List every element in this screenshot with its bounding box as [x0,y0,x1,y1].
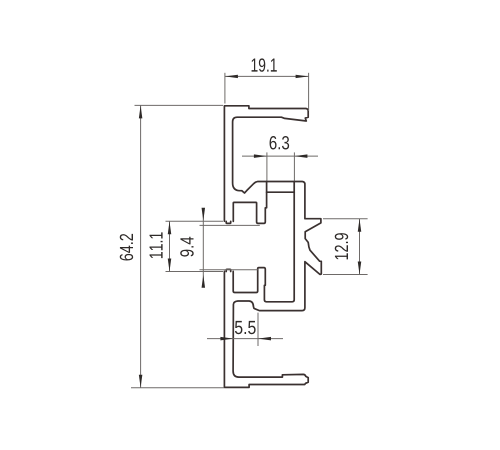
central hollow wall and lower channel [233,182,294,302]
upper inner channel (open-bottom slot) [233,182,266,224]
dimension 6.3 (slot width) [242,136,318,180]
spine end nub (top) [226,221,231,223]
screw-slot floor line [267,191,295,193]
spine end nub (bottom) [226,269,231,271]
dimension 12.9 (notch height) [323,219,368,275]
dimension 11.1 (outer gap height) [150,221,223,271]
dimension 64.2 (overall height) [120,105,224,387]
dimension 19.1 (top width) [225,58,309,111]
dimension 9.4 (inner opening height) [180,208,260,288]
profile outer outline (extrusion cross-section) [224,106,321,388]
dimension 5.5 (lower channel width) [207,313,283,346]
